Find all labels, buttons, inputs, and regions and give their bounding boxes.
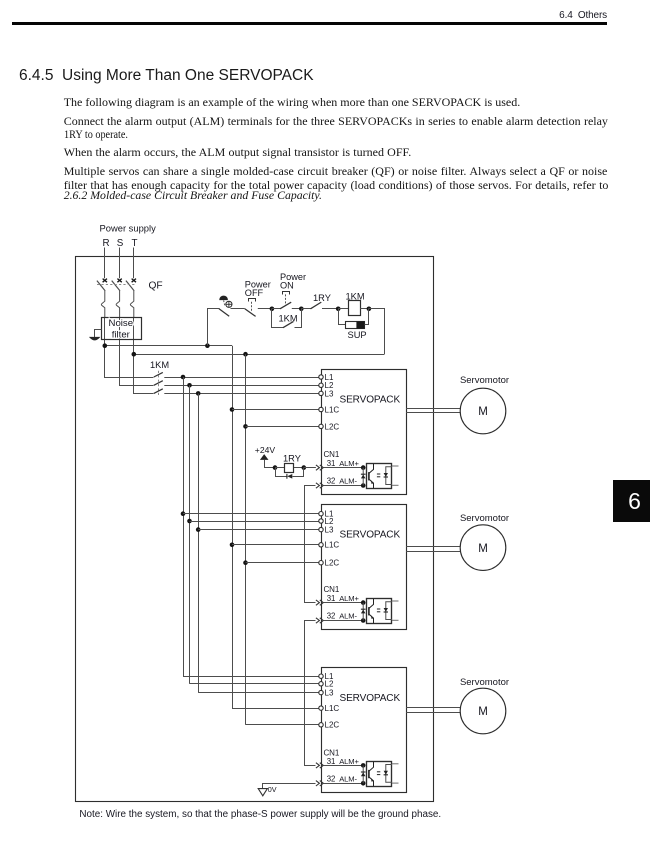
junction L1C tap SERVOPACK 1 (230, 407, 235, 412)
wire Power OFF to node A (258, 308, 272, 310)
label Power ON (280, 272, 306, 290)
photodiode U2 (384, 602, 392, 620)
pushbutton ESB actuator (224, 300, 225, 306)
svg-text:OFF: OFF (245, 288, 264, 298)
pin 31 ALM+ label SERVOPACK 2 (327, 594, 360, 603)
wire riser to emergency stop switch (208, 309, 220, 346)
diode clamp SERVOPACK 1 (361, 468, 366, 486)
coupling marks U1 (377, 474, 380, 477)
wire L2 to SERVOPACK 3 (190, 683, 319, 685)
transistor Q3 output (369, 762, 374, 787)
contactor 1KM main blade L2 (154, 381, 163, 386)
wire L2C to SERVOPACK 3 (246, 724, 319, 726)
wire flyback branch right (293, 468, 304, 477)
node A junction (270, 307, 275, 312)
breaker QF pole S thermal element (116, 291, 119, 317)
svg-text:filter: filter (112, 330, 131, 341)
coil 1KM (349, 301, 361, 316)
junction ALM+ SERVOPACK 3 (361, 763, 366, 768)
switch ESB blade (219, 309, 229, 316)
svg-text:ALM-: ALM- (339, 477, 357, 486)
junction phase T / control line (132, 352, 137, 357)
SERVOPACK 2 box (322, 505, 407, 630)
SERVOPACK 3 box (322, 668, 407, 793)
wire pin to photocoupler SERVOPACK 2 y602 (323, 602, 363, 604)
svg-text:1RY: 1RY (283, 454, 301, 464)
svg-text:0V: 0V (268, 785, 277, 794)
svg-text:SERVOPACK: SERVOPACK (340, 530, 401, 541)
terminal L2 SERVOPACK 2 (319, 517, 334, 526)
junction L3 tap SERVOPACK 2 (196, 527, 201, 532)
wire SUP branch right (365, 309, 369, 325)
SERVOPACK 1 box (322, 370, 407, 495)
terminal L1 SERVOPACK 2 (319, 510, 334, 519)
wire L1 to SERVOPACK 3 (183, 676, 319, 678)
svg-text:+24V: +24V (255, 445, 276, 455)
wire control feed line from phase R (105, 345, 232, 347)
coupling marks U2 (377, 609, 380, 612)
wire L3 drop vertical (198, 393, 200, 692)
svg-text:31: 31 (327, 594, 336, 603)
ground 0V (258, 789, 267, 796)
diode D1 flyback (287, 474, 292, 479)
svg-text:Servomotor: Servomotor (460, 513, 509, 524)
wire L1C to SERVOPACK 3 (232, 708, 319, 710)
svg-text:SERVOPACK: SERVOPACK (340, 395, 401, 406)
wire 1KM auxiliary branch right (295, 309, 302, 328)
contactor 1KM main blade L3 (154, 389, 163, 394)
svg-text:ALM+: ALM+ (339, 459, 359, 468)
svg-text:L3: L3 (325, 389, 334, 398)
pin chevrons SERVOPACK 1 y485 (316, 483, 323, 488)
diode clamp SERVOPACK 2 (361, 603, 366, 621)
wire L2 to SERVOPACK 2 (190, 521, 319, 523)
photocoupler U2 output stubs (392, 601, 399, 620)
switch Power ON blade (280, 302, 291, 309)
svg-text:Servomotor: Servomotor (460, 677, 509, 688)
pushbutton ESB lock symbol (226, 301, 232, 307)
wire L1C to SERVOPACK 2 (232, 544, 319, 546)
terminal L3 SERVOPACK 2 (319, 526, 334, 535)
junction control line / ESB riser (205, 343, 210, 348)
wire noise filter ground lead (95, 330, 102, 338)
ground noise filter (90, 337, 100, 340)
pin chevrons SERVOPACK 2 y602 (316, 600, 323, 605)
svg-text:L2C: L2C (325, 422, 340, 431)
wire L1C bus vertical (232, 346, 234, 708)
node B junction (299, 307, 304, 312)
junction L2C tap SERVOPACK 1 (243, 424, 248, 429)
wire phase S input (119, 248, 121, 279)
wire node D to control return (369, 309, 385, 355)
contactor 1KM main blade L1 (154, 372, 163, 377)
wire L1 to SERVOPACK 2 (183, 513, 319, 515)
junction control line / L2C bus (243, 352, 248, 357)
svg-text:L1C: L1C (325, 405, 340, 414)
junction ALM- SERVOPACK 2 (361, 618, 366, 623)
terminal L1 SERVOPACK 1 (319, 373, 334, 382)
junction L2 tap SERVOPACK 2 (187, 519, 192, 524)
paragraph line 1 (64, 95, 521, 110)
contact 1KM auxiliary blade (283, 322, 293, 328)
transistor Q1 output (369, 464, 374, 489)
breaker QF pole T thermal element (130, 291, 133, 317)
coil 1RY (285, 464, 294, 473)
terminal L2C SERVOPACK 2 (319, 559, 340, 568)
enclosure frame (76, 257, 434, 802)
svg-text:ALM-: ALM- (339, 774, 357, 783)
svg-text:L3: L3 (325, 526, 334, 535)
terminal L2C SERVOPACK 3 (319, 721, 340, 730)
breaker QF pole R thermal element (101, 291, 104, 317)
wire Power ON to node B (292, 308, 302, 310)
header rule (12, 22, 607, 25)
wire 1KM auxiliary branch left (272, 309, 284, 328)
wire L3 to SERVOPACK 2 (198, 529, 319, 531)
surge suppressor SUP (346, 321, 365, 328)
svg-text:31: 31 (327, 757, 336, 766)
contactor 1KM mechanical link (158, 371, 160, 397)
photocoupler U1 box (367, 464, 392, 489)
wire phase T input (133, 248, 135, 279)
node E junction (273, 465, 278, 470)
wire L2 to SERVOPACK 1 (164, 385, 318, 387)
svg-text:L1C: L1C (325, 704, 340, 713)
wire flyback branch left (276, 468, 287, 477)
wire pin to photocoupler SERVOPACK 3 y783 (323, 783, 363, 785)
wire phase R to 1KM contact (105, 318, 154, 378)
paragraph line 5 (64, 164, 608, 179)
wire node F to CN1 pin 31 (304, 467, 316, 469)
motor M3 (460, 688, 506, 734)
wire L2 drop vertical (189, 385, 191, 684)
photodiode U1 (384, 467, 392, 485)
node D junction (367, 307, 372, 312)
wire node B to 1RY contact (301, 308, 310, 310)
pushbutton Power ON actuator (285, 294, 287, 305)
heading number 6.4.5 (19, 67, 53, 85)
junction L1 drop (181, 375, 186, 380)
paragraph line 2 (64, 114, 608, 129)
svg-text:CN1: CN1 (324, 450, 340, 459)
pin 32 ALM- label SERVOPACK 2 (327, 612, 358, 621)
svg-text:1KM: 1KM (150, 360, 169, 370)
svg-text:1KM: 1KM (346, 292, 365, 302)
wire L3 to SERVOPACK 3 (198, 692, 319, 694)
pushbutton ESB cap (220, 296, 228, 300)
svg-text:ON: ON (280, 280, 294, 290)
wire motor leads SERVOPACK 2 (406, 547, 460, 552)
terminal L1 SERVOPACK 3 (319, 672, 334, 681)
terminal L3 SERVOPACK 1 (319, 389, 334, 398)
wire pin to photocoupler SERVOPACK 3 y765 (323, 765, 363, 767)
svg-text:M: M (478, 706, 488, 718)
wire phase R input (104, 248, 106, 279)
photocoupler U3 output stubs (392, 764, 399, 783)
svg-text:ALM-: ALM- (339, 612, 357, 621)
coupling marks U3 (377, 772, 380, 775)
node F junction (302, 465, 307, 470)
pin 32 ALM- label SERVOPACK 1 (327, 477, 358, 486)
svg-text:M: M (478, 406, 488, 418)
diode clamp SERVOPACK 3 (361, 765, 366, 783)
wire L2C bus vertical (245, 354, 247, 725)
terminal L1C SERVOPACK 1 (319, 405, 340, 414)
terminal L3 SERVOPACK 3 (319, 689, 334, 698)
wire L3 to SERVOPACK 1 (164, 393, 318, 395)
supply arrow +24V (260, 454, 269, 460)
pushbutton Power OFF cap (249, 299, 256, 302)
paragraph line 3 (64, 127, 128, 142)
svg-text:ALM+: ALM+ (339, 757, 359, 766)
svg-text:R: R (102, 238, 109, 249)
note line (79, 809, 441, 820)
junction ALM- SERVOPACK 1 (361, 483, 366, 488)
label Noise filter (109, 318, 134, 340)
junction ALM- SERVOPACK 3 (361, 781, 366, 786)
svg-text:1KM: 1KM (279, 313, 298, 323)
wire node C to coil 1KM (338, 308, 348, 310)
wire SUP branch left (339, 309, 346, 325)
wire phase S to 1KM contact (120, 318, 154, 386)
terminal L2C SERVOPACK 1 (319, 422, 340, 431)
transistor Q2 output (369, 599, 374, 624)
wire L2C to SERVOPACK 1 (246, 426, 319, 428)
wire ALM series SERVOPACK2 pin32 to SERVOPACK3 pin31 (305, 621, 316, 766)
terminal L2 SERVOPACK 3 (319, 680, 334, 689)
motor M1 (460, 388, 506, 434)
breaker QF pole S blade (112, 281, 120, 291)
svg-text:L2C: L2C (325, 721, 340, 730)
svg-text:SERVOPACK: SERVOPACK (340, 693, 401, 704)
wire coil 1RY to node F (294, 467, 304, 469)
contact 1RY blade (311, 302, 322, 309)
chapter tab 6 (613, 480, 650, 522)
wire pin to photocoupler SERVOPACK 1 y467 (323, 467, 363, 469)
svg-text:Servomotor: Servomotor (460, 375, 509, 386)
paragraph line 7 italic reference (64, 188, 322, 203)
wire L1C to SERVOPACK 1 (232, 409, 319, 411)
svg-text:M: M (478, 543, 488, 555)
junction ALM+ SERVOPACK 1 (361, 465, 366, 470)
wire node E to coil 1RY (275, 467, 285, 469)
svg-text:ALM+: ALM+ (339, 594, 359, 603)
svg-text:32: 32 (327, 477, 336, 486)
photocoupler U1 output stubs (392, 466, 399, 485)
label Power OFF (245, 279, 271, 298)
wire control feed line from phase T (134, 354, 384, 356)
breaker QF mechanical link (97, 284, 137, 286)
svg-text:L2: L2 (325, 680, 334, 689)
svg-text:31: 31 (327, 459, 336, 468)
wire L1 to SERVOPACK 1 (164, 377, 318, 379)
svg-text:32: 32 (327, 612, 336, 621)
wire ALM series SERVOPACK1 pin32 to SERVOPACK2 pin31 (305, 486, 316, 603)
junction L2C tap SERVOPACK 2 (243, 560, 248, 565)
terminal L1C SERVOPACK 3 (319, 704, 340, 713)
noise filter box (102, 318, 142, 340)
wire pin to photocoupler SERVOPACK 1 y485 (323, 485, 363, 487)
wire motor leads SERVOPACK 3 (406, 708, 460, 713)
motor M2 (460, 525, 506, 571)
breaker QF pole T contact X (132, 279, 136, 283)
wire 1RY contact to node C (322, 308, 338, 310)
junction L1C tap SERVOPACK 2 (230, 543, 235, 548)
pin chevrons SERVOPACK 1 y467 (316, 465, 323, 470)
svg-text:Power supply: Power supply (100, 223, 157, 234)
svg-text:S: S (117, 238, 124, 249)
junction L3 drop (196, 391, 201, 396)
heading title (62, 67, 314, 85)
switch Power OFF blade (245, 309, 256, 317)
breaker QF pole R contact X (103, 279, 107, 283)
photocoupler U2 box (367, 599, 392, 624)
pin chevrons SERVOPACK 3 y783 (316, 781, 323, 786)
svg-text:CN1: CN1 (324, 585, 340, 594)
breaker QF pole T blade (126, 281, 134, 291)
svg-text:32: 32 (327, 774, 336, 783)
svg-text:L2C: L2C (325, 559, 340, 568)
svg-text:QF: QF (149, 280, 163, 291)
pin 31 ALM+ label SERVOPACK 3 (327, 757, 360, 766)
pin chevrons SERVOPACK 2 y620 (316, 618, 323, 623)
wire coil 1KM to node D (360, 308, 369, 310)
terminal L1C SERVOPACK 2 (319, 541, 340, 550)
svg-text:1RY: 1RY (313, 293, 331, 303)
pin chevrons SERVOPACK 3 y765 (316, 763, 323, 768)
junction L1 tap SERVOPACK 2 (181, 511, 186, 516)
svg-text:Noise: Noise (109, 318, 134, 329)
pin 32 ALM- label SERVOPACK 3 (327, 774, 358, 783)
paragraph line 4 (64, 145, 412, 160)
svg-text:SUP: SUP (348, 330, 367, 340)
wire node A to Power ON contact (272, 308, 280, 310)
paragraph line 6 (64, 178, 609, 193)
junction phase R / control line (103, 343, 108, 348)
wire +24V to node E (265, 460, 276, 468)
pin 31 ALM+ label SERVOPACK 1 (327, 459, 360, 468)
pushbutton Power ON cap (283, 292, 290, 295)
terminal L2 SERVOPACK 1 (319, 381, 334, 390)
wire SERVOPACK3 pin32 to 0V (263, 784, 316, 789)
svg-text:L3: L3 (325, 689, 334, 698)
svg-text:T: T (132, 238, 138, 249)
pushbutton Power OFF actuator (251, 302, 253, 311)
svg-text:L1C: L1C (325, 541, 340, 550)
junction ALM+ SERVOPACK 2 (361, 600, 366, 605)
node C junction (336, 307, 341, 312)
breaker QF pole R blade (97, 281, 105, 291)
wire pin to photocoupler SERVOPACK 2 y620 (323, 620, 363, 622)
photocoupler U3 box (367, 762, 392, 787)
wire motor leads SERVOPACK 1 (406, 409, 460, 413)
wire phase T to 1KM contact (134, 318, 154, 394)
wire L1 drop vertical (183, 377, 185, 676)
wire ESB to Power OFF (231, 308, 245, 310)
breaker QF pole S contact X (117, 279, 121, 283)
photodiode U3 (384, 765, 392, 783)
running header 6.4 Others (450, 10, 607, 21)
junction L2 drop (187, 383, 192, 388)
wire L2C to SERVOPACK 2 (246, 562, 319, 564)
